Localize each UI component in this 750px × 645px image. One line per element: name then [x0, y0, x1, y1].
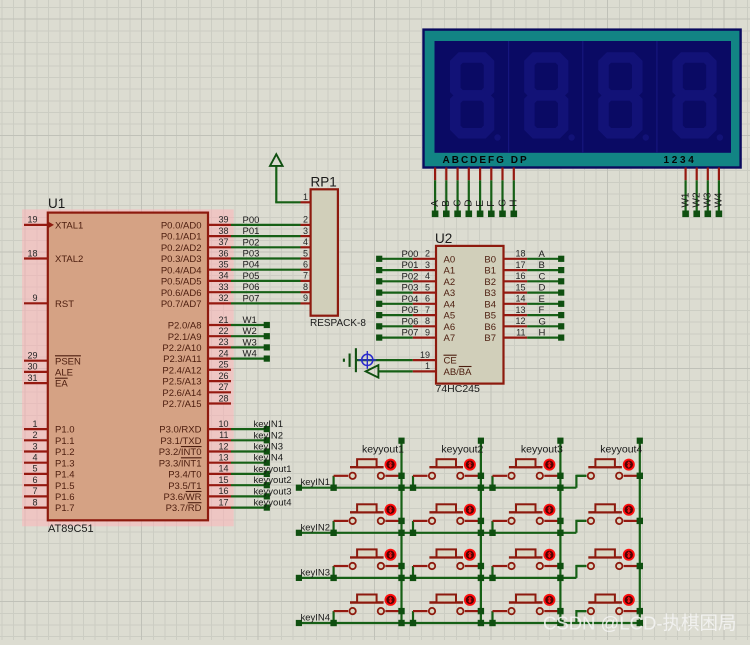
watermark text — [543, 613, 737, 634]
svg-text:E: E — [539, 294, 545, 305]
net label P04 at U2 — [402, 294, 419, 305]
svg-text:XTAL2: XTAL2 — [55, 254, 83, 265]
junction column 1 terminal row 1 — [398, 473, 404, 479]
net label P00 — [243, 215, 260, 226]
junction column 1 terminal row 4 — [398, 608, 404, 614]
svg-text:ABCDEFG DP: ABCDEFG DP — [443, 155, 529, 166]
svg-text:keyyout4: keyyout4 — [600, 444, 642, 456]
svg-text:P3.1/TXD: P3.1/TXD — [160, 436, 201, 447]
svg-text:15: 15 — [515, 282, 525, 292]
svg-text:19: 19 — [27, 215, 37, 225]
RP1 pin 9 — [301, 293, 311, 303]
U1 pin 4 P1.3 — [24, 453, 75, 470]
svg-text:P1.7: P1.7 — [55, 503, 75, 514]
U1 XTAL1 clock input arrow — [48, 222, 54, 228]
wire net keyIN4 from U1 pin 13 — [231, 460, 270, 466]
push button key row 3 col 1 — [330, 549, 400, 581]
svg-text:P0.0/AD0: P0.0/AD0 — [161, 221, 202, 232]
svg-text:keyyout1: keyyout1 — [362, 444, 404, 456]
wire net W1 from U1 pin 21 — [231, 322, 270, 328]
wire row keyIN4 — [296, 620, 640, 626]
svg-text:3: 3 — [32, 441, 37, 451]
net label E — [539, 294, 545, 305]
push button key row 3 col 3 — [489, 549, 559, 581]
svg-text:W3: W3 — [243, 337, 257, 348]
svg-text:P05: P05 — [402, 305, 419, 316]
svg-text:P2.0/A8: P2.0/A8 — [168, 321, 202, 332]
U2 pin 7 A5 — [413, 305, 455, 322]
display segment pin E — [477, 168, 484, 218]
net label keyyout3 — [521, 444, 563, 456]
wire net keyIN3 from U1 pin 12 — [231, 448, 270, 454]
svg-text:W2: W2 — [243, 326, 257, 337]
svg-text:P0.3/AD3: P0.3/AD3 — [161, 254, 202, 265]
junction column 1 row wire 4 — [398, 620, 404, 626]
svg-text:G: G — [539, 316, 546, 327]
svg-text:W3: W3 — [703, 192, 714, 207]
net label keyIN4 — [254, 453, 284, 464]
svg-text:13: 13 — [515, 305, 525, 315]
svg-text:P2.7/A15: P2.7/A15 — [162, 399, 201, 410]
svg-text:11: 11 — [219, 430, 228, 440]
svg-text:P0.5/AD5: P0.5/AD5 — [161, 277, 202, 288]
wire net P01 from U1 to RP1 — [231, 235, 301, 237]
junction column 2 row wire 1 — [478, 485, 484, 491]
svg-text:37: 37 — [218, 237, 228, 247]
svg-text:P1.3: P1.3 — [55, 458, 75, 469]
wire net P05 from U1 to RP1 — [231, 280, 301, 282]
rotated net label E — [475, 200, 486, 207]
svg-text:2: 2 — [32, 430, 37, 440]
svg-text:W2: W2 — [692, 192, 703, 207]
push button key row 2 col 1 — [330, 504, 400, 536]
display segment pin B — [443, 168, 450, 218]
rotated net label W1 — [680, 192, 691, 207]
svg-text:A3: A3 — [444, 288, 456, 299]
svg-text:74HC245: 74HC245 — [436, 383, 481, 395]
U1 pin 17 P3.7/RD — [166, 497, 231, 514]
svg-text:D: D — [539, 283, 546, 294]
U1 pin 33 P0.6/AD6 — [161, 282, 231, 299]
wire net keyyout4 from U1 pin 17 — [231, 505, 270, 511]
net label F — [539, 305, 545, 316]
U2 value label 74HC245 — [436, 383, 481, 395]
RP1 reference designator — [311, 175, 337, 190]
wire net P04 from U1 to RP1 — [231, 269, 301, 271]
junction column 4 terminal row 2 — [637, 518, 643, 524]
svg-text:W1: W1 — [680, 192, 691, 207]
svg-text:B5: B5 — [484, 311, 496, 322]
svg-text:12: 12 — [218, 441, 228, 451]
svg-text:7: 7 — [425, 305, 430, 315]
U1 pin 37 P0.2/AD2 — [161, 237, 231, 254]
wire net W2 from U1 pin 22 — [231, 333, 270, 339]
wire row keyIN2 — [296, 530, 577, 536]
U1 pin 28 P2.7/A15 — [162, 393, 231, 410]
junction column 1 terminal row 3 — [398, 563, 404, 569]
display digit separator 3 — [656, 41, 658, 153]
junction column 3 terminal row 4 — [557, 608, 563, 614]
svg-text:P3.7/RD: P3.7/RD — [166, 503, 202, 514]
wire U2 AB/BA to power — [378, 370, 412, 372]
net label P02 at U2 — [402, 271, 419, 282]
svg-text:F: F — [486, 201, 497, 207]
svg-text:2: 2 — [425, 249, 430, 259]
svg-text:P03: P03 — [402, 283, 419, 294]
svg-text:6: 6 — [303, 260, 308, 270]
net label P07 — [243, 293, 260, 304]
U1 pin 13 P3.3/INT1 — [159, 453, 231, 470]
net label W2 — [243, 326, 257, 337]
RP1 value label RESPACK-8 — [310, 318, 366, 329]
junction column 3 terminal row 2 — [557, 518, 563, 524]
svg-text:14: 14 — [515, 294, 525, 304]
push button key row 1 col 4 — [576, 459, 638, 488]
junction column 3 row wire 4 — [557, 620, 563, 626]
wire net E from U2 B4 — [527, 301, 564, 307]
svg-text:26: 26 — [218, 371, 228, 381]
push button key row 3 col 4 — [576, 549, 638, 578]
net label keyyout1 — [254, 464, 292, 475]
svg-text:B: B — [441, 200, 452, 207]
svg-text:A0: A0 — [444, 254, 456, 265]
net label A — [539, 249, 546, 260]
svg-text:39: 39 — [218, 215, 228, 225]
svg-text:keyIN2: keyIN2 — [301, 522, 331, 533]
svg-text:1: 1 — [303, 192, 308, 202]
svg-text:P04: P04 — [243, 260, 260, 271]
junction column 2 terminal row 4 — [478, 608, 484, 614]
push button key row 4 col 1 — [330, 594, 400, 626]
svg-text:24: 24 — [218, 348, 228, 358]
svg-text:B: B — [539, 260, 545, 271]
U2 pin 17 B1 — [484, 260, 527, 277]
U1 pin 29 PSEN — [24, 351, 81, 368]
U1 pin 9 RST — [24, 293, 74, 310]
power symbol VCC at RP1 pin 1 — [270, 154, 301, 203]
net label keyIN4 — [301, 613, 331, 624]
svg-text:B3: B3 — [484, 288, 496, 299]
svg-text:A4: A4 — [444, 299, 456, 310]
net label P02 — [243, 237, 260, 248]
svg-text:30: 30 — [27, 362, 37, 372]
junction column 4 terminal row 4 — [637, 608, 643, 614]
wire net keyyout1 from U1 pin 14 — [231, 471, 270, 477]
net label P03 at U2 — [402, 283, 419, 294]
svg-text:W4: W4 — [714, 192, 725, 207]
wire net G from U2 B6 — [527, 323, 564, 329]
svg-text:P1.0: P1.0 — [55, 425, 75, 436]
junction column 1 row wire 3 — [398, 575, 404, 581]
svg-text:P1.2: P1.2 — [55, 447, 75, 458]
svg-text:25: 25 — [218, 360, 228, 370]
net label P05 at U2 — [402, 305, 419, 316]
display inner panel — [435, 41, 732, 153]
chip U1 AT89C51 body — [48, 213, 208, 521]
net label D — [539, 283, 546, 294]
svg-text:keyIN4: keyIN4 — [254, 453, 284, 464]
U1 pin 21 P2.0/A8 — [168, 315, 231, 332]
display digit 4 segments — [678, 57, 723, 140]
wire net H from U2 B7 — [527, 335, 564, 341]
svg-text:A7: A7 — [444, 333, 456, 344]
net label P07 at U2 — [402, 328, 419, 339]
svg-text:3: 3 — [303, 226, 308, 236]
net label keyIN3 — [254, 442, 284, 453]
push button key row 2 col 4 — [576, 504, 638, 533]
svg-text:P1.1: P1.1 — [55, 436, 75, 447]
svg-text:D: D — [464, 200, 475, 207]
wire net P03 to U2 A3 — [376, 290, 413, 296]
junction column 2 row wire 2 — [478, 530, 484, 536]
U1 pin 2 P1.1 — [24, 430, 75, 447]
display digit separator 1 — [508, 41, 510, 153]
RP1 pin 7 — [301, 271, 311, 281]
svg-text:5: 5 — [303, 248, 308, 258]
svg-text:4: 4 — [425, 271, 430, 281]
svg-text:18: 18 — [515, 249, 525, 259]
svg-text:H: H — [509, 200, 520, 207]
wire net keyyout3 from U1 pin 16 — [231, 493, 270, 499]
rotated net label C — [452, 200, 463, 207]
svg-text:22: 22 — [218, 326, 228, 336]
svg-text:2: 2 — [303, 215, 308, 225]
net label W1 — [243, 315, 257, 326]
junction column 4 terminal row 3 — [637, 563, 643, 569]
svg-text:5: 5 — [425, 282, 430, 292]
svg-text:P04: P04 — [402, 294, 419, 305]
net label keyyout4 — [600, 444, 642, 456]
power symbol at U2 AB/BA — [366, 365, 379, 377]
svg-text:keyIN1: keyIN1 — [301, 477, 331, 488]
junction column 4 row wire 4 — [637, 620, 643, 626]
net label P01 — [243, 226, 260, 237]
svg-text:17: 17 — [515, 260, 525, 270]
svg-text:P2.2/A10: P2.2/A10 — [162, 343, 201, 354]
display digit 3 segments — [604, 57, 650, 140]
wire net P02 from U1 to RP1 — [231, 246, 301, 248]
svg-text:U1: U1 — [48, 196, 65, 211]
display segment pin C — [454, 168, 461, 218]
svg-text:P2.3/A11: P2.3/A11 — [163, 354, 201, 365]
svg-text:P1.4: P1.4 — [55, 470, 75, 481]
junction column 2 row wire 3 — [478, 575, 484, 581]
svg-text:P1.5: P1.5 — [55, 481, 75, 492]
svg-text:P02: P02 — [402, 271, 419, 282]
svg-text:P07: P07 — [402, 328, 419, 339]
svg-text:1: 1 — [32, 419, 37, 429]
U1 pin 36 P0.3/AD3 — [161, 248, 231, 265]
svg-text:33: 33 — [218, 282, 228, 292]
resistor pack RP1 body — [311, 189, 338, 315]
wire net P07 from U1 to RP1 — [231, 302, 301, 304]
svg-text:8: 8 — [303, 282, 308, 292]
wire column keyyout2 — [478, 438, 484, 623]
wire net P01 to U2 A1 — [376, 267, 413, 273]
svg-text:G: G — [497, 199, 508, 207]
RP1 pin 1 — [301, 192, 311, 202]
rotated net label H — [509, 200, 520, 207]
svg-text:PSEN: PSEN — [55, 356, 81, 367]
svg-text:P05: P05 — [243, 271, 260, 282]
junction column 3 row wire 2 — [557, 530, 563, 536]
svg-text:P0.7/AD7: P0.7/AD7 — [161, 299, 202, 310]
svg-text:ALE: ALE — [55, 368, 73, 379]
wire net F from U2 B5 — [527, 312, 564, 318]
junction column 1 terminal row 2 — [398, 518, 404, 524]
U1 pin 15 P3.5/T1 — [168, 475, 231, 492]
net label keyIN1 — [301, 477, 331, 488]
svg-text:E: E — [475, 200, 486, 207]
rotated net label A — [430, 200, 441, 207]
svg-text:keyyout2: keyyout2 — [254, 475, 292, 486]
svg-text:XTAL1: XTAL1 — [55, 221, 83, 232]
push button key row 3 col 2 — [410, 549, 480, 581]
wire net P00 from U1 to RP1 — [231, 224, 301, 226]
display segment pin F — [488, 168, 495, 218]
buffer U2 74HC245 body — [436, 246, 504, 384]
U1 pin 8 P1.7 — [24, 497, 75, 514]
svg-text:C: C — [452, 200, 463, 207]
RP1 pin 5 — [301, 248, 311, 258]
svg-text:12: 12 — [515, 316, 525, 326]
svg-text:CSDN @LCD-执棋困局: CSDN @LCD-执棋困局 — [543, 613, 737, 634]
junction column 3 terminal row 3 — [557, 563, 563, 569]
U1 pin 24 P2.3/A11 — [163, 348, 231, 365]
svg-text:P0.4/AD4: P0.4/AD4 — [161, 265, 202, 276]
RP1 pin 8 — [301, 282, 311, 292]
wire U2 CE to ground — [357, 359, 413, 361]
U1 pin 12 P3.2/INT0 — [159, 441, 231, 458]
net label P06 at U2 — [402, 316, 419, 327]
net label keyyout2 — [254, 475, 292, 486]
rotated net label G — [497, 199, 508, 207]
svg-text:C: C — [539, 271, 546, 282]
display segment pin G — [499, 168, 506, 218]
svg-text:5: 5 — [32, 464, 37, 474]
net label P01 at U2 — [402, 260, 419, 271]
junction column 2 terminal row 2 — [478, 518, 484, 524]
wire net W4 from U1 pin 24 — [231, 356, 270, 362]
svg-text:P3.2/INT0: P3.2/INT0 — [159, 447, 202, 458]
svg-text:16: 16 — [515, 271, 525, 281]
svg-text:A6: A6 — [444, 322, 456, 333]
push button key row 1 col 2 — [410, 459, 480, 491]
net label P03 — [243, 249, 260, 260]
U1 pin 25 P2.4/A12 — [162, 360, 231, 377]
U2 pin 18 B0 — [484, 249, 527, 266]
U2 pin 13 B5 — [484, 305, 527, 322]
wire column keyyout3 — [557, 438, 563, 623]
svg-text:RESPACK-8: RESPACK-8 — [310, 318, 366, 329]
chip U1 AT89C51 pin highlight — [22, 209, 234, 526]
svg-text:A2: A2 — [444, 277, 456, 288]
svg-text:keyIN2: keyIN2 — [254, 430, 284, 441]
U1 pin 30 ALE — [24, 362, 73, 379]
svg-text:9: 9 — [32, 293, 37, 303]
display digit separator 2 — [582, 41, 584, 153]
U1 pin 19 XTAL1 — [24, 215, 83, 232]
svg-text:P1.6: P1.6 — [55, 492, 75, 503]
push button key row 4 col 2 — [410, 594, 480, 626]
svg-text:P01: P01 — [243, 226, 260, 237]
svg-text:B0: B0 — [484, 254, 496, 265]
display digit 2 segments — [529, 57, 574, 140]
svg-text:P03: P03 — [243, 249, 260, 260]
svg-text:27: 27 — [218, 382, 228, 392]
svg-text:keyyout4: keyyout4 — [254, 498, 292, 509]
wire net keyyout2 from U1 pin 15 — [231, 482, 270, 488]
U2 pin 11 B7 — [484, 327, 527, 344]
U2 pin 9 A7 — [413, 327, 455, 344]
svg-text:P06: P06 — [402, 316, 419, 327]
svg-text:AT89C51: AT89C51 — [48, 523, 94, 535]
display digit pin W1 — [682, 168, 689, 218]
rotated net label D — [464, 200, 475, 207]
U2 pin 14 B4 — [484, 294, 527, 311]
push button key row 2 col 3 — [489, 504, 559, 536]
svg-text:4: 4 — [303, 237, 308, 247]
svg-text:U2: U2 — [435, 231, 452, 246]
svg-text:18: 18 — [27, 248, 37, 258]
svg-text:10: 10 — [218, 419, 228, 429]
svg-text:B2: B2 — [484, 277, 496, 288]
svg-text:AB/BA: AB/BA — [444, 367, 473, 378]
svg-text:9: 9 — [425, 327, 430, 337]
U2 pin 19 CE — [413, 350, 457, 367]
U1 value label AT89C51 — [48, 523, 94, 535]
net label W4 — [243, 349, 257, 360]
U1 pin 14 P3.4/T0 — [168, 464, 231, 481]
wire net keyIN1 from U1 pin 10 — [231, 426, 270, 432]
svg-text:P02: P02 — [243, 237, 260, 248]
svg-text:P2.4/A12: P2.4/A12 — [162, 365, 201, 376]
junction column 2 row wire 4 — [478, 620, 484, 626]
net label keyyout1 — [362, 444, 404, 456]
wire column keyyout4 — [637, 438, 643, 623]
U2 pin 15 B3 — [484, 282, 527, 299]
svg-text:21: 21 — [218, 315, 228, 325]
U1 pin 22 P2.1/A9 — [168, 326, 231, 343]
wire net P04 to U2 A4 — [376, 301, 413, 307]
U1 pin 34 P0.5/AD5 — [161, 271, 231, 288]
display digit pin W3 — [705, 168, 712, 218]
push button key row 4 col 3 — [489, 594, 559, 626]
junction column 3 row wire 3 — [557, 575, 563, 581]
U2 pin 3 A1 — [413, 260, 455, 277]
svg-text:38: 38 — [218, 226, 228, 236]
U1 pin 3 P1.2 — [24, 441, 75, 458]
U1 pin 11 P3.1/TXD — [160, 430, 231, 447]
svg-text:keyIN3: keyIN3 — [301, 567, 331, 578]
svg-text:15: 15 — [218, 475, 228, 485]
rotated net label W4 — [714, 192, 725, 207]
display segment pin D — [466, 168, 473, 218]
U1 pin 6 P1.5 — [24, 475, 75, 492]
svg-text:7: 7 — [303, 271, 308, 281]
junction column 1 row wire 2 — [398, 530, 404, 536]
svg-text:P2.6/A14: P2.6/A14 — [162, 388, 201, 399]
U2 pin 5 A3 — [413, 282, 455, 299]
display segment pin H — [511, 168, 518, 218]
wire column keyyout1 — [398, 438, 404, 623]
svg-text:P06: P06 — [243, 282, 260, 293]
svg-text:36: 36 — [218, 248, 228, 258]
wire row keyIN3 — [296, 575, 577, 581]
svg-text:RP1: RP1 — [311, 175, 337, 190]
svg-text:1234: 1234 — [664, 155, 697, 166]
wire net A from U2 B0 — [527, 256, 564, 262]
